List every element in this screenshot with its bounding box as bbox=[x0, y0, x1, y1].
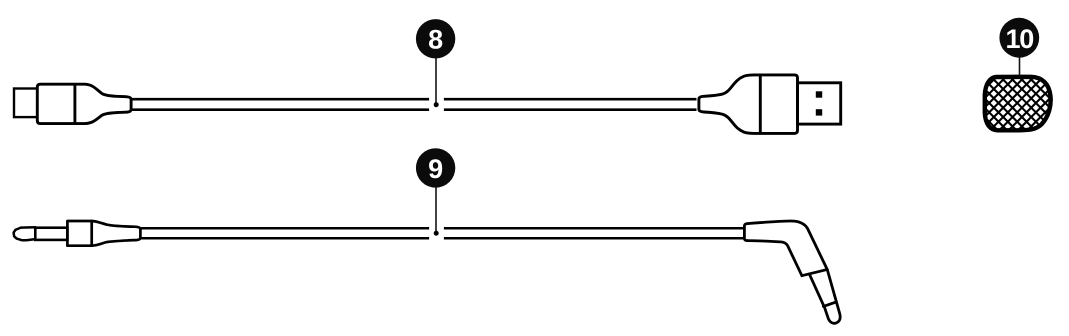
svg-text:9: 9 bbox=[428, 154, 443, 184]
svg-text:10: 10 bbox=[1005, 24, 1033, 54]
svg-text:8: 8 bbox=[428, 25, 443, 55]
